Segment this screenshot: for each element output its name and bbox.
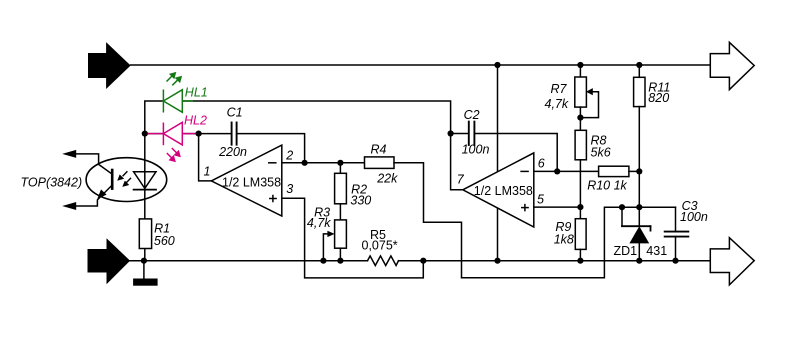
phototransistor of opto bbox=[111, 170, 114, 189]
svg-text:HL2: HL2 bbox=[184, 113, 207, 127]
wire pin 6 line bbox=[534, 170, 599, 172]
svg-text:2: 2 bbox=[285, 149, 293, 163]
wiper of R3 bbox=[323, 234, 328, 261]
resistor R2 bbox=[339, 163, 341, 174]
svg-text:ZD1: ZD1 bbox=[614, 244, 638, 258]
svg-text:6: 6 bbox=[538, 157, 545, 171]
wire HL1 line to C2 node and pin 7 bbox=[182, 101, 463, 190]
junction pin 3 loop on bottom rail bbox=[420, 258, 426, 264]
wire pin 2 line bbox=[282, 162, 365, 164]
wire pin 3 loop to rail bbox=[282, 198, 424, 278]
diode ZD1 (TL431) bbox=[638, 171, 640, 226]
junction C2 to pin 6 line bbox=[554, 168, 560, 174]
svg-text:R4: R4 bbox=[371, 142, 387, 156]
junction op-amp supply on top rail bbox=[494, 62, 500, 68]
junction R7 top on top rail bbox=[577, 62, 583, 68]
svg-text:1k8: 1k8 bbox=[554, 233, 574, 247]
capacitor C1 bbox=[232, 123, 237, 145]
svg-text:22k: 22k bbox=[376, 171, 398, 185]
junction ZD1 ref on reference line bbox=[619, 204, 625, 210]
resistor R4 bbox=[365, 157, 395, 169]
svg-text:560: 560 bbox=[154, 234, 175, 248]
HL1 emission arrowheads bbox=[169, 72, 176, 79]
wire R4 right to reference node (jog) bbox=[394, 163, 676, 278]
op-amp U2 bbox=[463, 153, 534, 227]
resistor R10 bbox=[599, 166, 629, 176]
wire op-amp supply top bbox=[497, 65, 499, 172]
wire C1 right to pin 2 bbox=[238, 134, 305, 163]
junction R3 wiper on bottom rail bbox=[320, 258, 326, 264]
svg-text:C1: C1 bbox=[227, 105, 243, 119]
svg-text:220n: 220n bbox=[218, 145, 247, 159]
junction ZD1 cathode on reference line bbox=[636, 204, 642, 210]
arrowhead collector lead bbox=[62, 150, 76, 158]
arrowhead emitter lead bbox=[62, 202, 76, 210]
svg-text:R7: R7 bbox=[551, 82, 568, 96]
capacitor C3 bbox=[675, 207, 677, 231]
svg-text:3: 3 bbox=[286, 182, 293, 196]
LED HL2 magenta bbox=[147, 122, 197, 159]
svg-text:R10 1k: R10 1k bbox=[587, 179, 627, 193]
svg-text:330: 330 bbox=[350, 193, 371, 207]
svg-text:5: 5 bbox=[537, 192, 544, 206]
wire bottom rail left of R5 bbox=[130, 260, 367, 262]
svg-text:1/2 LM358: 1/2 LM358 bbox=[222, 176, 281, 190]
wiper of R7 bbox=[580, 92, 598, 118]
wire top rail bbox=[131, 64, 711, 66]
input arrow top (black) bbox=[88, 42, 131, 89]
svg-text:4,7k: 4,7k bbox=[545, 97, 569, 111]
wire pin 5 line bbox=[534, 206, 581, 208]
junction R1 / ground on bottom rail bbox=[141, 258, 147, 264]
svg-text:100n: 100n bbox=[680, 210, 708, 224]
junction R11 top on top rail bbox=[636, 62, 642, 68]
wire C2 right to pin 6 bbox=[475, 134, 557, 172]
wire op-amp U1 pin 1 stub bbox=[199, 134, 212, 181]
svg-text:5k6: 5k6 bbox=[591, 146, 611, 160]
ground bbox=[133, 279, 158, 286]
svg-text:0,075*: 0,075* bbox=[362, 239, 398, 253]
junction R8 / R9 on pin 5 line bbox=[577, 204, 583, 210]
wire opto LED vertical bbox=[144, 134, 146, 219]
wire R1 bottom lead bbox=[144, 249, 146, 261]
input arrow bottom (black) bbox=[88, 238, 131, 284]
svg-text:820: 820 bbox=[648, 91, 669, 105]
junction R3 bottom on bottom rail bbox=[337, 258, 343, 264]
wire ground stub bbox=[143, 261, 145, 279]
svg-text:1: 1 bbox=[204, 164, 211, 178]
svg-text:TOP(3842): TOP(3842) bbox=[21, 176, 83, 190]
junction op-amp supply on bottom rail bbox=[494, 258, 500, 264]
resistor R1 bbox=[139, 219, 151, 249]
junction ZD1 anode on bottom rail bbox=[636, 258, 642, 264]
wire HL2 line to C1 bbox=[145, 133, 231, 135]
resistor R3 bbox=[335, 220, 347, 248]
resistor R9 bbox=[579, 207, 581, 219]
junction node HL1 / C2 left / pin 7 bbox=[448, 130, 454, 136]
optocoupler TOP(3842) ellipse bbox=[86, 158, 167, 202]
resistor R5 zigzag bbox=[368, 256, 399, 266]
junction C3 bottom on bottom rail bbox=[672, 258, 678, 264]
photodiode of opto bbox=[134, 172, 156, 189]
arrowhead on emitter bbox=[97, 189, 106, 199]
capacitor C2 bbox=[451, 133, 468, 135]
output arrow bottom (white) bbox=[710, 238, 754, 285]
resistor R11 bbox=[638, 65, 640, 77]
resistor R8 bbox=[575, 130, 586, 160]
svg-text:HL1: HL1 bbox=[185, 85, 208, 99]
wire op-amp supply bottom bbox=[497, 208, 499, 261]
output arrow top (white) bbox=[710, 42, 754, 89]
svg-text:7: 7 bbox=[457, 173, 465, 187]
LED HL1 green bbox=[163, 75, 193, 113]
HL2 emission arrowheads bbox=[174, 150, 181, 157]
junction R7 wiper tap bbox=[577, 115, 583, 121]
junction R9 bottom on bottom rail bbox=[577, 258, 583, 264]
svg-text:C2: C2 bbox=[464, 108, 480, 122]
wire bottom rail right of R5 bbox=[399, 260, 711, 262]
resistor R7 potentiometer bbox=[579, 65, 581, 77]
junction node HL2 / C1 / pin 1 bbox=[196, 131, 202, 137]
wire HL1 left lead down to HL2 node bbox=[145, 101, 164, 134]
svg-text:4,7k: 4,7k bbox=[307, 216, 331, 230]
junction C1 to pin 2 line bbox=[302, 160, 308, 166]
opto light arrow b bbox=[126, 178, 131, 183]
junction R10 right / R11 bottom bbox=[636, 168, 642, 174]
svg-text:1/2 LM358: 1/2 LM358 bbox=[474, 184, 533, 198]
op-amp U1 bbox=[211, 145, 281, 216]
junction node HL2 anode / opto LED bbox=[142, 131, 148, 137]
opto light arrow a bbox=[117, 171, 131, 187]
svg-text:431: 431 bbox=[646, 244, 667, 258]
junction R2 top on pin 2 line bbox=[337, 160, 343, 166]
svg-text:100n: 100n bbox=[462, 143, 490, 157]
